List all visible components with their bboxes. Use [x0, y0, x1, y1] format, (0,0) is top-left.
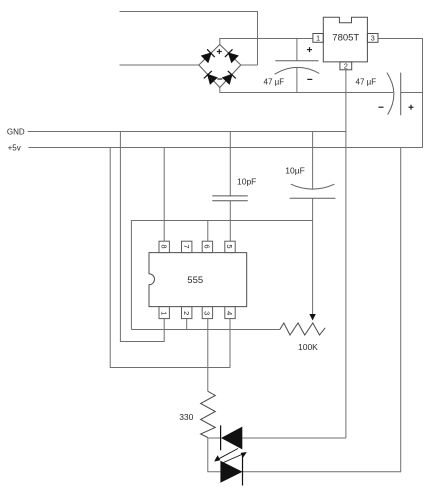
svg-text:10µF: 10µF: [285, 165, 305, 175]
svg-text:1: 1: [159, 311, 168, 315]
svg-text:10pF: 10pF: [237, 176, 256, 186]
svg-text:2: 2: [182, 311, 191, 315]
svg-text:7: 7: [182, 244, 191, 248]
svg-text:555: 555: [187, 275, 203, 286]
svg-text:3: 3: [371, 34, 375, 43]
svg-text:4: 4: [225, 311, 234, 315]
svg-text:5: 5: [225, 244, 234, 248]
svg-text:47 µF: 47 µF: [264, 78, 285, 87]
svg-text:7805T: 7805T: [332, 32, 359, 43]
svg-text:3: 3: [203, 311, 212, 315]
svg-text:330: 330: [179, 412, 193, 422]
svg-text:1: 1: [316, 34, 320, 43]
svg-text:100K: 100K: [298, 342, 318, 352]
svg-text:6: 6: [203, 244, 212, 248]
svg-text:GND: GND: [7, 128, 25, 137]
svg-text:+5v: +5v: [8, 144, 21, 153]
svg-text:2: 2: [344, 62, 348, 71]
svg-text:47 µF: 47 µF: [356, 78, 377, 87]
svg-text:8: 8: [159, 244, 168, 248]
